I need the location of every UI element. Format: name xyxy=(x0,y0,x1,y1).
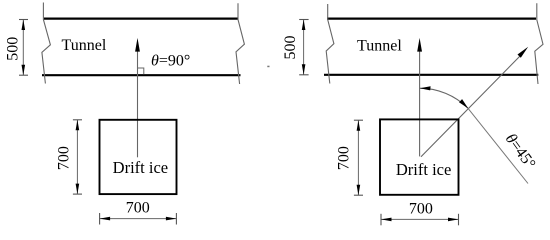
vertical arrow (left) xyxy=(137,44,139,157)
svg-text:500: 500 xyxy=(5,37,22,61)
svg-text:Drift ice: Drift ice xyxy=(396,160,451,179)
tunnel bottom wall (right) xyxy=(324,74,538,76)
svg-text:Tunnel: Tunnel xyxy=(357,37,402,54)
svg-text:700: 700 xyxy=(56,146,73,170)
break symbol right end (left tunnel) xyxy=(236,3,244,84)
svg-text:700: 700 xyxy=(335,146,352,170)
drift ice square (left) xyxy=(100,120,177,194)
dimension 700 horizontal (left) xyxy=(100,218,177,220)
stray dash between figures xyxy=(267,66,269,68)
vertical arrow (right) xyxy=(419,44,421,156)
svg-text:700: 700 xyxy=(409,200,433,217)
angle arc xyxy=(420,88,468,108)
drift ice square (right) xyxy=(380,119,459,194)
break symbol right end (right tunnel) xyxy=(535,3,543,84)
dimension 500 line (left) xyxy=(22,20,24,76)
svg-text:500: 500 xyxy=(282,36,299,60)
dimension 700 vertical (left) xyxy=(76,120,78,194)
svg-text:θ=90°: θ=90° xyxy=(151,53,190,70)
leader line for theta=45deg xyxy=(468,108,528,183)
tunnel top wall (right) xyxy=(327,18,536,20)
break symbol left end (left tunnel) xyxy=(42,3,51,84)
svg-text:Tunnel: Tunnel xyxy=(62,37,107,54)
svg-text:Drift ice: Drift ice xyxy=(113,158,168,177)
dimension 700 vertical (right) xyxy=(357,120,359,195)
diagonal 45deg arrow xyxy=(421,55,522,157)
dimension 700 horizontal (right) xyxy=(381,218,459,220)
tunnel bottom wall (left) xyxy=(42,74,241,76)
tunnel top wall (left) xyxy=(44,18,238,20)
break symbol left end (right tunnel) xyxy=(326,4,334,84)
svg-text:700: 700 xyxy=(126,200,150,217)
right-angle marker xyxy=(138,68,144,74)
dimension 500 line (right) xyxy=(303,20,305,75)
